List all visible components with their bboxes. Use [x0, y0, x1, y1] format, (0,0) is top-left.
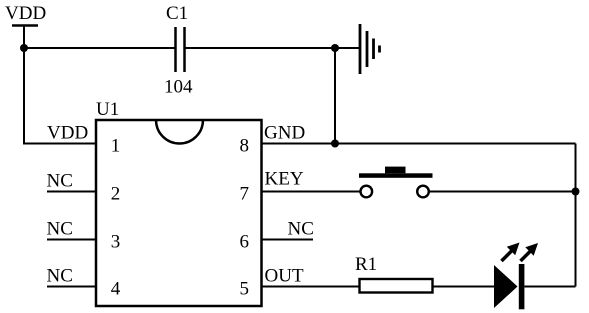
svg-text:2: 2	[111, 184, 121, 205]
wire LED to right rail	[524, 286, 575, 288]
LED D1	[494, 243, 538, 310]
svg-text:C1: C1	[166, 3, 188, 24]
svg-text:104: 104	[164, 77, 193, 98]
svg-text:OUT: OUT	[265, 266, 304, 287]
svg-text:1: 1	[111, 136, 121, 157]
wire resistor to LED	[433, 286, 495, 288]
wire pin 2 stub	[47, 191, 96, 193]
svg-text:GND: GND	[264, 123, 305, 144]
svg-text:NC: NC	[47, 171, 73, 192]
svg-text:6: 6	[240, 232, 250, 253]
ground	[360, 24, 380, 74]
wire pin 4 stub	[47, 286, 96, 288]
wire node to GND pin	[334, 48, 336, 144]
resistor R1	[355, 254, 433, 293]
svg-text:8: 8	[240, 136, 250, 157]
svg-text:7: 7	[240, 184, 250, 205]
svg-text:5: 5	[240, 279, 250, 300]
svg-text:NC: NC	[47, 219, 73, 240]
wire pin 3 stub	[47, 239, 96, 241]
wire right rail	[575, 144, 577, 287]
wire pin 1	[23, 143, 96, 145]
wire pin 5 to resistor	[262, 286, 360, 288]
wire pin 8 GND	[262, 143, 576, 145]
power symbol VDD	[5, 3, 46, 26]
svg-text:VDD: VDD	[47, 123, 88, 144]
node junction top-right	[331, 44, 339, 52]
svg-text:3: 3	[111, 232, 121, 253]
wire top to capacitor	[24, 47, 175, 49]
svg-text:NC: NC	[47, 266, 73, 287]
IC U1	[96, 99, 262, 306]
wire pin 6 stub	[262, 239, 314, 241]
wire switch to right rail	[430, 191, 576, 193]
wire capacitor to ground	[185, 47, 360, 49]
svg-text:U1: U1	[96, 99, 119, 120]
svg-text:R1: R1	[355, 254, 377, 275]
svg-text:VDD: VDD	[5, 3, 46, 24]
wire VDD vertical	[23, 26, 25, 145]
svg-text:KEY: KEY	[265, 169, 304, 190]
node junction right rail	[572, 188, 580, 196]
svg-text:4: 4	[111, 279, 121, 300]
wire pin 7 to switch	[262, 191, 360, 193]
svg-text:NC: NC	[288, 219, 314, 240]
node junction top-left	[20, 44, 28, 52]
switch S1 pushbutton	[359, 167, 433, 198]
capacitor C1	[164, 3, 193, 98]
node junction GND pin	[331, 140, 339, 148]
